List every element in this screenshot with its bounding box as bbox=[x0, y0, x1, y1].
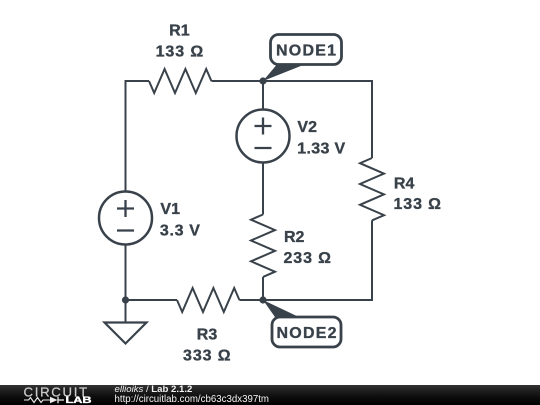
ground bbox=[105, 300, 147, 344]
svg-text:133 Ω: 133 Ω bbox=[394, 196, 442, 213]
node junction dot at ground bbox=[122, 296, 129, 303]
CircuitLab logo: resistor-diode line bbox=[24, 398, 50, 403]
svg-text:V1: V1 bbox=[160, 201, 180, 218]
svg-text:333 Ω: 333 Ω bbox=[183, 347, 231, 364]
svg-text:NODE1: NODE1 bbox=[276, 42, 336, 59]
wire top horizontal and right vertical upper bbox=[211, 81, 372, 158]
svg-text:133 Ω: 133 Ω bbox=[156, 44, 204, 61]
resistor R2 bbox=[251, 215, 275, 277]
wire bottom-left horizontal bbox=[126, 299, 178, 301]
wire left lower (V1 to bottom node) bbox=[125, 245, 127, 301]
footer bar bbox=[0, 385, 540, 405]
resistor R1 bbox=[149, 69, 211, 93]
wire top-left corner bbox=[126, 81, 150, 192]
resistor R3 bbox=[177, 288, 239, 312]
svg-text:V2: V2 bbox=[297, 119, 317, 136]
resistor R4 bbox=[360, 158, 384, 220]
NODE2 label bbox=[263, 300, 341, 347]
svg-text:R3: R3 bbox=[197, 327, 218, 344]
wire R2 to NODE2 bbox=[262, 277, 264, 300]
svg-text:http://circuitlab.com/cb63c3dx: http://circuitlab.com/cb63c3dx397tm bbox=[115, 394, 270, 405]
svg-text:LAB: LAB bbox=[66, 395, 92, 405]
voltage source V1 bbox=[99, 192, 152, 245]
CircuitLab logo: diode bbox=[50, 397, 58, 403]
svg-text:R1: R1 bbox=[169, 23, 190, 40]
svg-text:R2: R2 bbox=[284, 229, 305, 246]
svg-text:R4: R4 bbox=[394, 175, 415, 192]
wire NODE1 to V2 bbox=[262, 81, 264, 110]
wire right vertical lower and bottom-right horizontal bbox=[239, 220, 372, 300]
svg-text:233 Ω: 233 Ω bbox=[284, 250, 332, 267]
svg-text:3.3 V: 3.3 V bbox=[160, 223, 200, 240]
svg-text:1.33 V: 1.33 V bbox=[297, 140, 345, 157]
wire V2 to R2 bbox=[262, 163, 264, 215]
node junction dot at NODE1 bbox=[259, 77, 266, 84]
node junction dot at NODE2 bbox=[259, 296, 266, 303]
svg-text:NODE2: NODE2 bbox=[277, 325, 337, 342]
voltage source V2 bbox=[237, 110, 290, 163]
NODE1 label bbox=[263, 35, 342, 82]
